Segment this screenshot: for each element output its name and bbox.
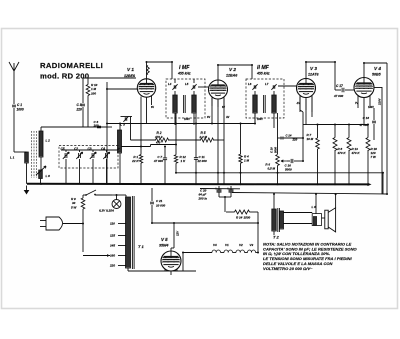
svg-text:5000: 5000 [285, 168, 292, 172]
svg-text:L 2: L 2 [46, 139, 51, 143]
svg-text:100V: 100V [257, 118, 263, 121]
svg-text:1 M: 1 M [91, 87, 97, 91]
svg-text:47 000: 47 000 [333, 94, 344, 98]
svg-text:C 8: C 8 [77, 103, 82, 107]
svg-text:V 3: V 3 [310, 66, 317, 71]
svg-text:V4: V4 [213, 243, 217, 247]
svg-text:L4: L4 [168, 82, 172, 86]
svg-text:100: 100 [94, 124, 99, 128]
svg-text:10 000: 10 000 [156, 204, 166, 208]
svg-text:L5: L5 [185, 82, 189, 86]
svg-text:T 1: T 1 [138, 244, 145, 249]
svg-text:I MF: I MF [179, 65, 190, 71]
svg-text:220: 220 [292, 138, 298, 142]
svg-text:0,5 M: 0,5 M [267, 167, 275, 171]
svg-text:470 K: 470 K [337, 151, 347, 155]
svg-text:6V: 6V [151, 106, 154, 109]
svg-text:1 M: 1 M [244, 159, 250, 163]
svg-text:L 8: L 8 [312, 205, 317, 209]
svg-text:RADIOMARELLI: RADIOMARELLI [40, 61, 103, 70]
svg-text:35W4: 35W4 [159, 244, 168, 248]
svg-text:T 2: T 2 [273, 235, 280, 240]
svg-text:100V: 100V [368, 106, 374, 109]
svg-text:12AT6: 12AT6 [308, 73, 320, 77]
svg-text:L 8: L 8 [46, 174, 51, 178]
svg-text:100V: 100V [184, 118, 190, 121]
svg-text:V 2: V 2 [229, 67, 236, 72]
svg-text:470 K: 470 K [351, 151, 361, 155]
svg-text:470 k: 470 k [154, 135, 163, 139]
svg-text:+: + [215, 187, 217, 191]
svg-text:V1: V1 [225, 243, 229, 247]
svg-text:C 21: C 21 [156, 199, 163, 203]
svg-text:10 M: 10 M [307, 137, 314, 141]
svg-text:L7: L7 [265, 82, 269, 86]
svg-text:455 kHz: 455 kHz [177, 72, 191, 76]
svg-text:V 1: V 1 [127, 67, 134, 72]
svg-text:C 1: C 1 [17, 103, 22, 107]
svg-text:160: 160 [110, 254, 115, 258]
svg-text:C 14: C 14 [286, 134, 292, 138]
svg-text:22 000: 22 000 [197, 159, 208, 163]
svg-text:200 ln: 200 ln [198, 197, 208, 201]
svg-text:210V: 210V [378, 97, 382, 106]
svg-text:C 10: C 10 [270, 147, 274, 153]
svg-text:6V: 6V [222, 106, 225, 109]
svg-text:47 000: 47 000 [358, 123, 368, 127]
svg-text:50B5: 50B5 [372, 73, 382, 77]
svg-text:II MF: II MF [257, 65, 270, 71]
svg-text:22 K: 22 K [131, 159, 139, 163]
svg-text:12BE6: 12BE6 [124, 74, 136, 78]
svg-text:-1V: -1V [296, 102, 300, 105]
svg-text:100: 100 [91, 92, 96, 96]
svg-text:AV: AV [226, 115, 230, 119]
svg-text:V 5: V 5 [161, 237, 168, 242]
svg-text:+: + [227, 187, 229, 191]
svg-text:30: 30 [72, 201, 76, 205]
svg-text:V 4: V 4 [374, 66, 381, 71]
svg-text:1000: 1000 [17, 108, 24, 112]
svg-text:L6: L6 [248, 82, 252, 86]
svg-text:V3: V3 [250, 243, 254, 247]
svg-text:R 14: R 14 [236, 216, 243, 220]
svg-text:mod. RD 200: mod. RD 200 [40, 72, 89, 81]
svg-text:470: 470 [155, 141, 161, 145]
svg-text:125: 125 [110, 234, 115, 238]
svg-text:VOLTMETRO 20 000 Ω/V~: VOLTMETRO 20 000 Ω/V~ [263, 266, 313, 271]
svg-text:C 17: C 17 [336, 84, 343, 88]
svg-text:455 kHz: 455 kHz [256, 72, 270, 76]
svg-text:47 000: 47 000 [153, 159, 164, 163]
svg-text:0V: 0V [207, 115, 210, 119]
svg-text:220: 220 [109, 264, 115, 268]
svg-text:2,2 M: 2,2 M [199, 135, 208, 139]
svg-text:5000: 5000 [274, 147, 278, 153]
svg-text:6,3V 0,15A: 6,3V 0,15A [99, 209, 114, 213]
svg-text:7V: 7V [355, 102, 358, 105]
svg-text:145: 145 [110, 244, 115, 248]
svg-text:L 1: L 1 [10, 156, 15, 160]
svg-text:12BA6: 12BA6 [226, 74, 238, 78]
svg-text:110: 110 [110, 222, 115, 226]
svg-text:V2: V2 [239, 243, 243, 247]
svg-text:1500: 1500 [244, 216, 251, 220]
svg-text:220: 220 [76, 108, 83, 112]
